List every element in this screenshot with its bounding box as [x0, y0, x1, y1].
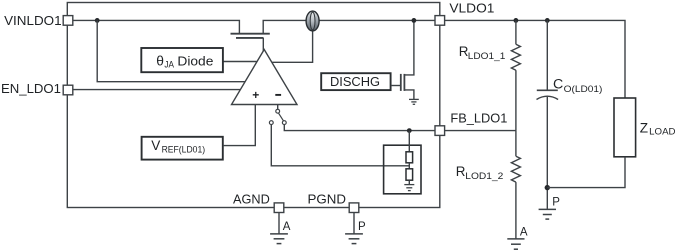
current sensor symbol inner lens: [310, 12, 315, 30]
wire PGND pin to ground: [353, 213, 355, 234]
svg-text:P: P: [358, 221, 366, 233]
box internal feedback divider: [384, 145, 421, 194]
resistor internal upper: [406, 152, 413, 163]
wire rail to RLDO1_1: [515, 20, 517, 44]
switch S1 right throw contact: [282, 121, 286, 125]
svg-text:R: R: [456, 164, 466, 179]
wire between internal resistors: [408, 163, 410, 169]
svg-text:θ: θ: [156, 53, 164, 68]
transistor Q1 PMOS pass channel: [231, 33, 270, 35]
svg-text:V: V: [151, 138, 160, 153]
svg-text:FB_LDO1: FB_LDO1: [450, 110, 507, 125]
wire internal resistor to ground: [408, 180, 410, 184]
svg-text:LDO1_1: LDO1_1: [468, 51, 506, 62]
wire RLOD1_2 to ground: [515, 182, 517, 239]
ground PGND: [345, 234, 363, 244]
transistor Q2 discharge NMOS gate bar: [400, 74, 402, 91]
load ZLOAD rectangle: [614, 98, 636, 157]
wire rail to capacitor: [546, 20, 548, 89]
pin FB_LDO1: [435, 126, 445, 136]
IC outline box: [67, 3, 440, 208]
svg-text:A: A: [520, 227, 528, 239]
pin PGND: [349, 203, 359, 213]
svg-text:A: A: [283, 221, 291, 233]
transistor Q2 discharge NMOS channel bar: [403, 74, 405, 91]
svg-text:VLDO1: VLDO1: [449, 1, 494, 16]
node VIN junction: [95, 18, 100, 23]
svg-text:LOD1_2: LOD1_2: [465, 171, 503, 182]
svg-text:EN_LDO1: EN_LDO1: [1, 81, 61, 96]
wire VREF to op-amp plus input: [223, 105, 255, 146]
wire EN_LDO1 to op-amp: [73, 89, 240, 91]
wire RLDO1_1 to FB node: [515, 70, 517, 130]
resistor RLDO1_1: [511, 44, 520, 70]
node rail junction at Q2 drain: [412, 18, 417, 23]
node rail junction at CO: [545, 18, 550, 23]
wire VINLDO1 to PMOS source: [73, 20, 240, 33]
svg-text:O(LD01): O(LD01): [564, 84, 603, 95]
box theta JA Diode: [141, 48, 223, 72]
node rail junction at RLDO1_1: [514, 18, 519, 23]
pin EN_LDO1: [63, 85, 73, 95]
capacitor CO(LD01) bottom plate: [537, 96, 559, 99]
wire Q1 gate to op-amp output: [262, 38, 264, 51]
wire VIN sense to op-amp: [97, 20, 245, 81]
svg-text:Z: Z: [640, 120, 648, 135]
transistor Q1 PMOS gate bar: [236, 37, 264, 39]
pin VINLDO1: [63, 16, 73, 26]
wire switch right throw to FB pin: [284, 125, 435, 131]
box DISCHG: [321, 73, 390, 90]
svg-text:DISCHG: DISCHG: [330, 74, 380, 89]
svg-text:+: +: [252, 88, 259, 102]
wire top rail to load: [319, 20, 625, 98]
ground P under capacitor: [539, 209, 556, 219]
resistor internal lower: [406, 169, 413, 180]
wire DISCHG to Q2 gate: [391, 85, 400, 87]
op-amp minus input label: [275, 94, 281, 96]
op-amp U1 error amplifier: [232, 50, 298, 105]
pin AGND: [274, 203, 284, 213]
wire AGND pin to ground: [278, 213, 280, 234]
svg-text:AGND: AGND: [233, 192, 270, 207]
svg-text:PGND: PGND: [308, 192, 347, 207]
current sensor symbol outer: [306, 11, 319, 31]
svg-text:P: P: [552, 196, 560, 208]
svg-text:LOAD: LOAD: [649, 127, 675, 138]
ground under Q2: [409, 99, 419, 104]
ground inside divider box: [404, 185, 414, 191]
wire op-amp minus input to switch: [277, 105, 279, 110]
wire switch left throw to internal divider: [271, 125, 409, 166]
wire PMOS drain to rail: [263, 20, 306, 33]
svg-text:VINLDO1: VINLDO1: [4, 13, 62, 28]
capacitor CO(LD01) top plate: [537, 89, 558, 91]
ground under RLOD1_2: [507, 239, 524, 249]
wire theta-JA box to op-amp: [223, 61, 257, 63]
wire FB pin to external divider: [445, 130, 516, 132]
wire ZLOAD bottom return: [547, 157, 625, 188]
pin VLDO1: [435, 16, 445, 26]
wire capacitor to ground node: [546, 97, 548, 209]
wire Q2 drain to rail: [404, 20, 414, 75]
switch S1 left throw contact: [269, 121, 273, 125]
wire Q2 source to ground: [404, 90, 414, 99]
switch S1 arm: [278, 113, 283, 121]
node capacitor ground junction: [545, 185, 550, 190]
node FB junction: [407, 128, 412, 133]
wire FB node to RLOD1_2: [515, 131, 517, 157]
switch S1 common contact: [276, 109, 280, 113]
svg-text:C: C: [553, 77, 563, 93]
svg-text:Diode: Diode: [177, 53, 213, 68]
current sensor bottom wire to op-amp: [271, 31, 312, 63]
svg-text:JA: JA: [164, 59, 174, 69]
wire FB node into divider box: [408, 131, 410, 152]
svg-text:REF(LD01): REF(LD01): [162, 144, 206, 155]
resistor RLOD1_2: [511, 156, 520, 182]
box VREF: [142, 137, 223, 160]
ground AGND: [270, 234, 288, 244]
